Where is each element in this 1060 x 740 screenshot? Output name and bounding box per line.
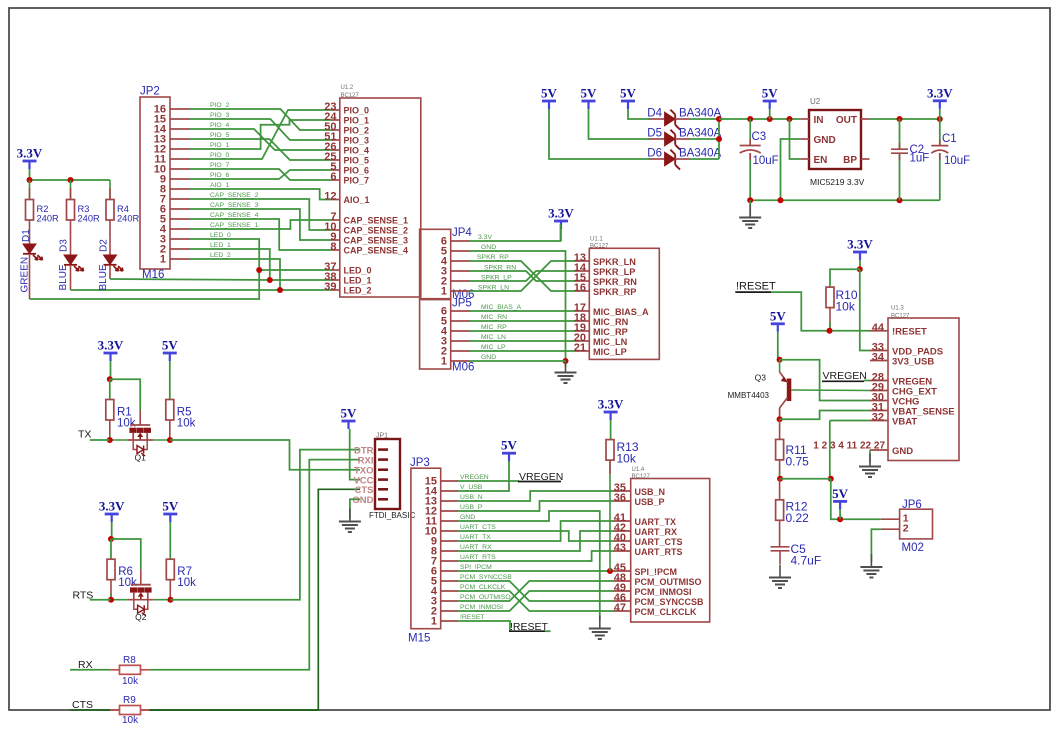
svg-text:M02: M02 (902, 542, 924, 554)
svg-text:AIO_1: AIO_1 (344, 195, 370, 205)
svg-text:Q3: Q3 (755, 373, 767, 383)
svg-text:5V: 5V (770, 308, 787, 323)
svg-text:10k: 10k (122, 715, 139, 726)
svg-text:BC127: BC127 (341, 93, 360, 99)
svg-text:M16: M16 (142, 269, 164, 281)
svg-text:MIC_BIAS_A: MIC_BIAS_A (481, 304, 522, 311)
svg-text:10uF: 10uF (753, 155, 779, 167)
svg-text:PCM_SYNCCSB: PCM_SYNCCSB (460, 574, 512, 581)
svg-text:LED_0: LED_0 (344, 266, 372, 276)
svg-text:UART_RTS: UART_RTS (460, 554, 496, 561)
svg-text:PIO_7: PIO_7 (210, 162, 229, 169)
svg-text:UART_RX: UART_RX (460, 544, 492, 551)
svg-text:5V: 5V (162, 338, 179, 353)
svg-text:10k: 10k (177, 577, 196, 589)
svg-text:CAP_SENSE_3: CAP_SENSE_3 (344, 236, 409, 246)
svg-text:12: 12 (324, 191, 336, 203)
svg-text:5V: 5V (162, 499, 179, 514)
svg-text:10k: 10k (122, 676, 139, 687)
svg-text:U1.2: U1.2 (341, 85, 354, 91)
svg-text:PCM_OUTMISO: PCM_OUTMISO (635, 577, 702, 587)
svg-text:MIC_LP: MIC_LP (481, 344, 506, 351)
svg-text:D1: D1 (21, 229, 32, 242)
svg-text:D6: D6 (647, 148, 662, 160)
svg-text:PCM_INMOSI: PCM_INMOSI (635, 587, 692, 597)
svg-text:SPKR_RP: SPKR_RP (593, 287, 636, 297)
svg-text:BA340A: BA340A (679, 148, 722, 160)
svg-text:2: 2 (903, 523, 909, 535)
svg-text:BA340A: BA340A (679, 108, 722, 120)
svg-text:D4: D4 (647, 108, 662, 120)
svg-text:FTDI_BASIC: FTDI_BASIC (369, 511, 415, 520)
svg-text:PIO_1: PIO_1 (210, 142, 229, 149)
svg-text:4.7uF: 4.7uF (791, 554, 822, 568)
svg-text:MMBT4403: MMBT4403 (728, 391, 770, 400)
svg-text:32: 32 (872, 412, 884, 424)
svg-text:CAP_SENSE_1: CAP_SENSE_1 (210, 222, 259, 229)
svg-text:U1.4: U1.4 (632, 467, 645, 473)
svg-text:BA340A: BA340A (679, 128, 722, 140)
svg-text:UART_CTS: UART_CTS (635, 537, 683, 547)
svg-text:43: 43 (614, 542, 626, 554)
svg-text:UART_RTS: UART_RTS (635, 547, 683, 557)
svg-text:USB_P: USB_P (635, 497, 665, 507)
svg-text:CAP_SENSE_2: CAP_SENSE_2 (210, 192, 259, 199)
svg-text:MIC_RP: MIC_RP (481, 324, 507, 331)
svg-text:AIO_1: AIO_1 (210, 182, 229, 189)
svg-text:VREGEN: VREGEN (460, 474, 489, 481)
svg-text:3.3V: 3.3V (98, 338, 124, 353)
svg-text:16: 16 (574, 282, 586, 294)
svg-text:!RESET: !RESET (460, 614, 485, 621)
svg-text:BC127: BC127 (891, 314, 910, 320)
svg-text:BLUE: BLUE (98, 264, 109, 290)
svg-text:CAP_SENSE_2: CAP_SENSE_2 (344, 226, 409, 236)
svg-text:5V: 5V (620, 86, 637, 101)
svg-text:U2: U2 (810, 97, 821, 106)
svg-text:MIC_LN: MIC_LN (481, 334, 506, 341)
svg-text:GND: GND (481, 354, 496, 361)
svg-text:PIO_7: PIO_7 (344, 176, 370, 186)
svg-text:LED_2: LED_2 (210, 252, 231, 259)
svg-text:UART_TX: UART_TX (635, 517, 677, 527)
svg-text:USB_N: USB_N (460, 494, 483, 501)
svg-text:3.3V: 3.3V (847, 237, 873, 252)
svg-text:3.3V: 3.3V (927, 85, 953, 100)
svg-text:MIC_LN: MIC_LN (593, 337, 628, 347)
svg-text:3V3_USB: 3V3_USB (892, 356, 934, 367)
svg-text:36: 36 (614, 492, 626, 504)
svg-text:PIO_0: PIO_0 (210, 152, 229, 159)
svg-text:10k: 10k (117, 418, 136, 430)
svg-text:D5: D5 (647, 128, 662, 140)
svg-text:PIO_4: PIO_4 (210, 122, 229, 129)
svg-text:1: 1 (431, 616, 437, 628)
svg-text:M15: M15 (408, 633, 430, 645)
svg-text:LED_0: LED_0 (210, 232, 231, 239)
svg-text:PCM_INMOSI: PCM_INMOSI (460, 604, 503, 611)
svg-text:1: 1 (441, 286, 447, 298)
svg-text:C3: C3 (752, 131, 767, 143)
svg-text:6: 6 (330, 171, 336, 183)
svg-text:1 2 3 4 11 22 27: 1 2 3 4 11 22 27 (813, 441, 885, 452)
svg-text:Q2: Q2 (135, 612, 147, 622)
svg-text:EN: EN (814, 155, 828, 166)
svg-text:PIO_6: PIO_6 (344, 166, 370, 176)
svg-text:U1.3: U1.3 (891, 306, 904, 312)
svg-text:Q1: Q1 (135, 453, 147, 463)
svg-text:LED_1: LED_1 (344, 276, 372, 286)
svg-text:R2: R2 (37, 204, 49, 214)
svg-text:BC127: BC127 (632, 474, 651, 480)
svg-text:44: 44 (872, 322, 885, 334)
svg-text:UART_TX: UART_TX (460, 534, 491, 541)
svg-text:USB_P: USB_P (460, 504, 483, 511)
svg-text:3.3V: 3.3V (478, 234, 492, 241)
svg-text:PIO_0: PIO_0 (344, 106, 370, 116)
svg-text:JP5: JP5 (452, 298, 472, 310)
svg-text:R9: R9 (123, 695, 136, 706)
svg-text:M06: M06 (452, 362, 474, 374)
svg-text:5V: 5V (501, 438, 518, 453)
svg-text:PCM_SYNCCSB: PCM_SYNCCSB (635, 597, 705, 607)
svg-text:5V: 5V (832, 486, 849, 501)
svg-text:3.3V: 3.3V (17, 146, 43, 161)
svg-text:5V: 5V (341, 406, 358, 421)
svg-text:C1: C1 (942, 133, 957, 145)
svg-text:PIO_1: PIO_1 (344, 116, 370, 126)
svg-text:PCM_OUTMISO: PCM_OUTMISO (460, 594, 511, 601)
svg-text:MIC_BIAS_A: MIC_BIAS_A (593, 307, 649, 317)
svg-text:SPKR_LP: SPKR_LP (593, 267, 635, 277)
svg-text:GND: GND (814, 135, 836, 146)
svg-text:1: 1 (441, 356, 447, 368)
svg-text:VREGEN: VREGEN (823, 370, 867, 382)
svg-text:D2: D2 (99, 239, 110, 252)
svg-text:47: 47 (614, 602, 626, 614)
svg-text:R3: R3 (78, 204, 90, 214)
svg-text:MIC_RN: MIC_RN (481, 314, 507, 321)
svg-text:PCM_CLKCLK: PCM_CLKCLK (460, 584, 506, 591)
svg-text:0.22: 0.22 (786, 511, 810, 525)
svg-text:SPKR_RP: SPKR_RP (477, 254, 509, 261)
svg-text:LED_2: LED_2 (344, 286, 372, 296)
svg-text:JP1: JP1 (376, 433, 388, 440)
svg-text:34: 34 (872, 352, 885, 364)
svg-text:CAP_SENSE_4: CAP_SENSE_4 (344, 246, 409, 256)
svg-text:PIO_6: PIO_6 (210, 172, 229, 179)
svg-text:39: 39 (324, 281, 336, 293)
svg-text:GND: GND (460, 514, 475, 521)
svg-text:CAP_SENSE_3: CAP_SENSE_3 (210, 202, 259, 209)
svg-text:MIC5219 3.3V: MIC5219 3.3V (810, 177, 865, 187)
svg-text:3.3V: 3.3V (99, 499, 125, 514)
svg-text:5V: 5V (541, 86, 558, 101)
svg-text:5V: 5V (581, 86, 598, 101)
svg-text:GND: GND (892, 446, 913, 457)
svg-text:JP6: JP6 (902, 499, 922, 511)
svg-text:PIO_5: PIO_5 (210, 132, 229, 139)
svg-text:PCM_CLKCLK: PCM_CLKCLK (635, 607, 697, 617)
svg-text:BP: BP (843, 155, 857, 166)
svg-text:VBAT: VBAT (892, 416, 917, 427)
svg-text:240R: 240R (78, 214, 101, 224)
svg-text:SPKR_LN: SPKR_LN (593, 257, 636, 267)
svg-text:JP2: JP2 (140, 86, 160, 98)
svg-text:MIC_RN: MIC_RN (593, 317, 629, 327)
svg-text:!RESET: !RESET (892, 327, 927, 338)
svg-text:D3: D3 (59, 239, 70, 252)
svg-text:!RESET: !RESET (736, 281, 776, 293)
svg-text:PIO_2: PIO_2 (344, 126, 370, 136)
svg-text:LED_1: LED_1 (210, 242, 231, 249)
svg-text:3.3V: 3.3V (548, 206, 574, 221)
svg-text:240R: 240R (117, 214, 140, 224)
svg-text:10k: 10k (836, 300, 856, 314)
svg-text:CAP_SENSE_1: CAP_SENSE_1 (344, 216, 409, 226)
svg-text:JP3: JP3 (410, 457, 430, 469)
svg-text:USB_N: USB_N (635, 487, 666, 497)
svg-text:UART_RX: UART_RX (635, 527, 678, 537)
svg-text:SPKR_RN: SPKR_RN (593, 277, 637, 287)
svg-text:TX: TX (78, 429, 91, 441)
svg-text:1: 1 (160, 254, 166, 266)
svg-text:MIC_RP: MIC_RP (593, 327, 628, 337)
svg-text:1uF: 1uF (910, 153, 930, 165)
svg-text:240R: 240R (37, 214, 60, 224)
svg-text:BC127: BC127 (590, 244, 609, 250)
svg-text:U1.1: U1.1 (590, 237, 603, 243)
svg-text:PIO_5: PIO_5 (344, 156, 370, 166)
svg-text:OUT: OUT (836, 115, 857, 126)
svg-text:GND: GND (352, 495, 373, 506)
svg-text:R4: R4 (117, 204, 129, 214)
svg-text:UART_CTS: UART_CTS (460, 524, 496, 531)
svg-text:BLUE: BLUE (58, 264, 69, 290)
svg-text:PIO_3: PIO_3 (210, 112, 229, 119)
svg-text:SPI_!PCM: SPI_!PCM (635, 567, 678, 577)
svg-text:0.75: 0.75 (786, 455, 810, 469)
svg-text:5V: 5V (762, 86, 779, 101)
svg-text:GND: GND (481, 244, 496, 251)
svg-text:PIO_4: PIO_4 (344, 146, 370, 156)
svg-text:CAP_SENSE_4: CAP_SENSE_4 (210, 212, 259, 219)
svg-text:PIO_2: PIO_2 (210, 102, 229, 109)
svg-text:10k: 10k (177, 418, 196, 430)
svg-text:SPI_!PCM: SPI_!PCM (460, 564, 492, 571)
svg-text:MIC_LP: MIC_LP (593, 347, 627, 357)
svg-text:R8: R8 (123, 655, 136, 666)
svg-text:10uF: 10uF (944, 155, 970, 167)
svg-text:JP4: JP4 (452, 227, 472, 239)
svg-text:V_USB: V_USB (460, 484, 483, 491)
svg-text:3.3V: 3.3V (598, 397, 624, 412)
svg-text:10k: 10k (617, 452, 637, 466)
svg-text:21: 21 (574, 342, 586, 354)
svg-text:GREEN: GREEN (20, 257, 31, 293)
svg-text:PIO_3: PIO_3 (344, 136, 370, 146)
svg-text:8: 8 (330, 241, 336, 253)
svg-text:IN: IN (814, 115, 824, 126)
